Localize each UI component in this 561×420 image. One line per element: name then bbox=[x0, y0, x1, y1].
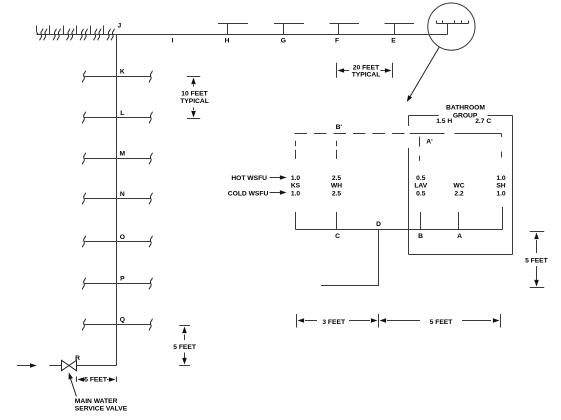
svg-text:C: C bbox=[335, 233, 340, 240]
svg-text:1.0: 1.0 bbox=[291, 190, 301, 197]
branch N bbox=[82, 193, 152, 205]
break pair 1 bbox=[40, 29, 47, 41]
wire: main vertical riser J to R bbox=[116, 35, 118, 366]
svg-text:SERVICE VALVE: SERVICE VALVE bbox=[75, 406, 128, 413]
valve R (gate valve bowtie) bbox=[62, 360, 77, 370]
wire: cold water branch line bbox=[296, 207, 503, 230]
svg-text:2.5: 2.5 bbox=[332, 175, 342, 182]
flow arrow into main bbox=[17, 365, 31, 367]
svg-text:O: O bbox=[120, 234, 125, 241]
svg-text:B': B' bbox=[336, 124, 343, 131]
svg-text:K: K bbox=[120, 68, 125, 75]
dimension: 5 feet valve to riser bbox=[77, 377, 117, 383]
svg-text:0.5: 0.5 bbox=[416, 190, 426, 197]
hot drop WH (dashed) bbox=[336, 141, 338, 160]
svg-text:M: M bbox=[120, 151, 126, 158]
svg-text:5 FEET: 5 FEET bbox=[525, 257, 549, 264]
dimension: 3 feet (bottom) bbox=[297, 314, 379, 328]
svg-text:TYPICAL: TYPICAL bbox=[180, 98, 209, 105]
svg-text:A': A' bbox=[426, 139, 433, 146]
cold stub KS bbox=[295, 212, 297, 230]
svg-text:SH: SH bbox=[496, 183, 505, 190]
tee branch E bbox=[385, 24, 415, 35]
svg-text:1.0: 1.0 bbox=[291, 175, 301, 182]
riser tick 3 bbox=[63, 26, 65, 35]
svg-text:P: P bbox=[120, 276, 125, 283]
svg-text:H: H bbox=[225, 37, 230, 44]
branch M bbox=[82, 153, 152, 165]
break pair 6 bbox=[107, 29, 114, 41]
svg-text:1.0: 1.0 bbox=[496, 190, 506, 197]
riser tick 2 bbox=[49, 26, 51, 35]
wire: top main line J to circle bbox=[37, 34, 448, 36]
svg-text:BATHROOM: BATHROOM bbox=[446, 105, 485, 112]
svg-text:GROUP: GROUP bbox=[453, 113, 478, 120]
hot water line inside bathroom group (long dashes) bbox=[410, 133, 502, 135]
svg-text:L: L bbox=[120, 110, 124, 117]
svg-text:1.5 H: 1.5 H bbox=[436, 118, 452, 125]
break pair 4 bbox=[80, 29, 87, 41]
cold wsfu arrow bbox=[270, 192, 281, 194]
svg-text:LAV: LAV bbox=[414, 183, 427, 190]
branch O bbox=[82, 236, 152, 248]
cold stub B / LAV bbox=[420, 212, 422, 230]
wire: bottom run valve to riser bbox=[77, 365, 117, 367]
svg-text:E: E bbox=[391, 37, 396, 44]
hot wsfu arrow bbox=[270, 177, 281, 179]
dimension: 10 feet typical (vertical) bbox=[187, 77, 200, 119]
svg-text:F: F bbox=[335, 37, 339, 44]
svg-text:J: J bbox=[118, 23, 122, 30]
svg-text:0.5: 0.5 bbox=[416, 175, 426, 182]
break pair 2 bbox=[53, 29, 60, 41]
cold stub C / WH bbox=[336, 212, 338, 230]
dimension: 5 feet (right vertical) bbox=[530, 232, 545, 288]
hot water line B' (dashed) bbox=[295, 133, 408, 135]
branch L bbox=[82, 112, 152, 124]
wire: left end riser tick with corner bbox=[37, 26, 41, 35]
dimension: 5 feet (bottom) bbox=[387, 314, 501, 328]
svg-text:20 FEET: 20 FEET bbox=[353, 64, 380, 71]
svg-text:A: A bbox=[457, 233, 462, 240]
hot drop SH (dashed) bbox=[501, 134, 503, 161]
svg-text:G: G bbox=[281, 37, 286, 44]
wire: drop at D bbox=[321, 230, 379, 286]
svg-text:2.7 C: 2.7 C bbox=[475, 118, 491, 125]
svg-text:MAIN WATER: MAIN WATER bbox=[75, 398, 118, 405]
svg-text:B: B bbox=[418, 233, 423, 240]
svg-text:10 FEET: 10 FEET bbox=[181, 90, 208, 97]
svg-text:COLD WSFU: COLD WSFU bbox=[228, 190, 269, 197]
svg-text:3 FEET: 3 FEET bbox=[322, 319, 346, 326]
cold stub A / WC bbox=[458, 212, 460, 230]
tee branch H bbox=[218, 24, 248, 35]
riser tick 4 bbox=[76, 26, 78, 35]
svg-text:5 FEET: 5 FEET bbox=[173, 344, 197, 351]
break pair 5 bbox=[94, 29, 101, 41]
svg-text:R: R bbox=[75, 355, 80, 362]
hot drop KS (dashed) bbox=[295, 141, 297, 160]
tee branch G bbox=[274, 24, 304, 35]
wire: circle detail bar with ticks bbox=[437, 21, 469, 35]
svg-text:N: N bbox=[120, 191, 125, 198]
svg-text:5 FEET: 5 FEET bbox=[430, 319, 454, 326]
dimension: 20 feet typical (horizontal) bbox=[337, 63, 393, 78]
svg-text:WC: WC bbox=[453, 183, 464, 190]
svg-text:WH: WH bbox=[331, 183, 342, 190]
svg-text:2.5: 2.5 bbox=[332, 190, 342, 197]
branch Q bbox=[82, 319, 152, 331]
break pair 3 bbox=[67, 29, 74, 41]
branch K bbox=[82, 71, 152, 83]
svg-text:HOT WSFU: HOT WSFU bbox=[231, 175, 267, 182]
leader arrow from circle to bathroom group bbox=[409, 47, 440, 99]
tee branch F bbox=[330, 24, 360, 35]
svg-text:5 FEET: 5 FEET bbox=[84, 377, 108, 384]
riser tick 5 bbox=[90, 26, 92, 35]
svg-text:2.2: 2.2 bbox=[454, 190, 464, 197]
riser tick 6 bbox=[103, 26, 105, 35]
svg-text:I: I bbox=[172, 37, 174, 44]
svg-text:TYPICAL: TYPICAL bbox=[352, 71, 381, 78]
dimension: 5 feet Q to R (vertical) bbox=[179, 326, 190, 366]
svg-text:D: D bbox=[376, 221, 381, 228]
branch P bbox=[82, 278, 152, 290]
hot drop LAV A' (dashed) bbox=[419, 137, 421, 161]
svg-text:1.0: 1.0 bbox=[496, 175, 506, 182]
wire: service pipe left of valve bbox=[49, 365, 61, 367]
svg-text:Q: Q bbox=[120, 317, 125, 324]
leader arrow: main water service valve bbox=[70, 378, 76, 397]
svg-text:KS: KS bbox=[291, 183, 301, 190]
detail circle bbox=[428, 3, 475, 50]
bathroom group box bbox=[409, 116, 513, 255]
